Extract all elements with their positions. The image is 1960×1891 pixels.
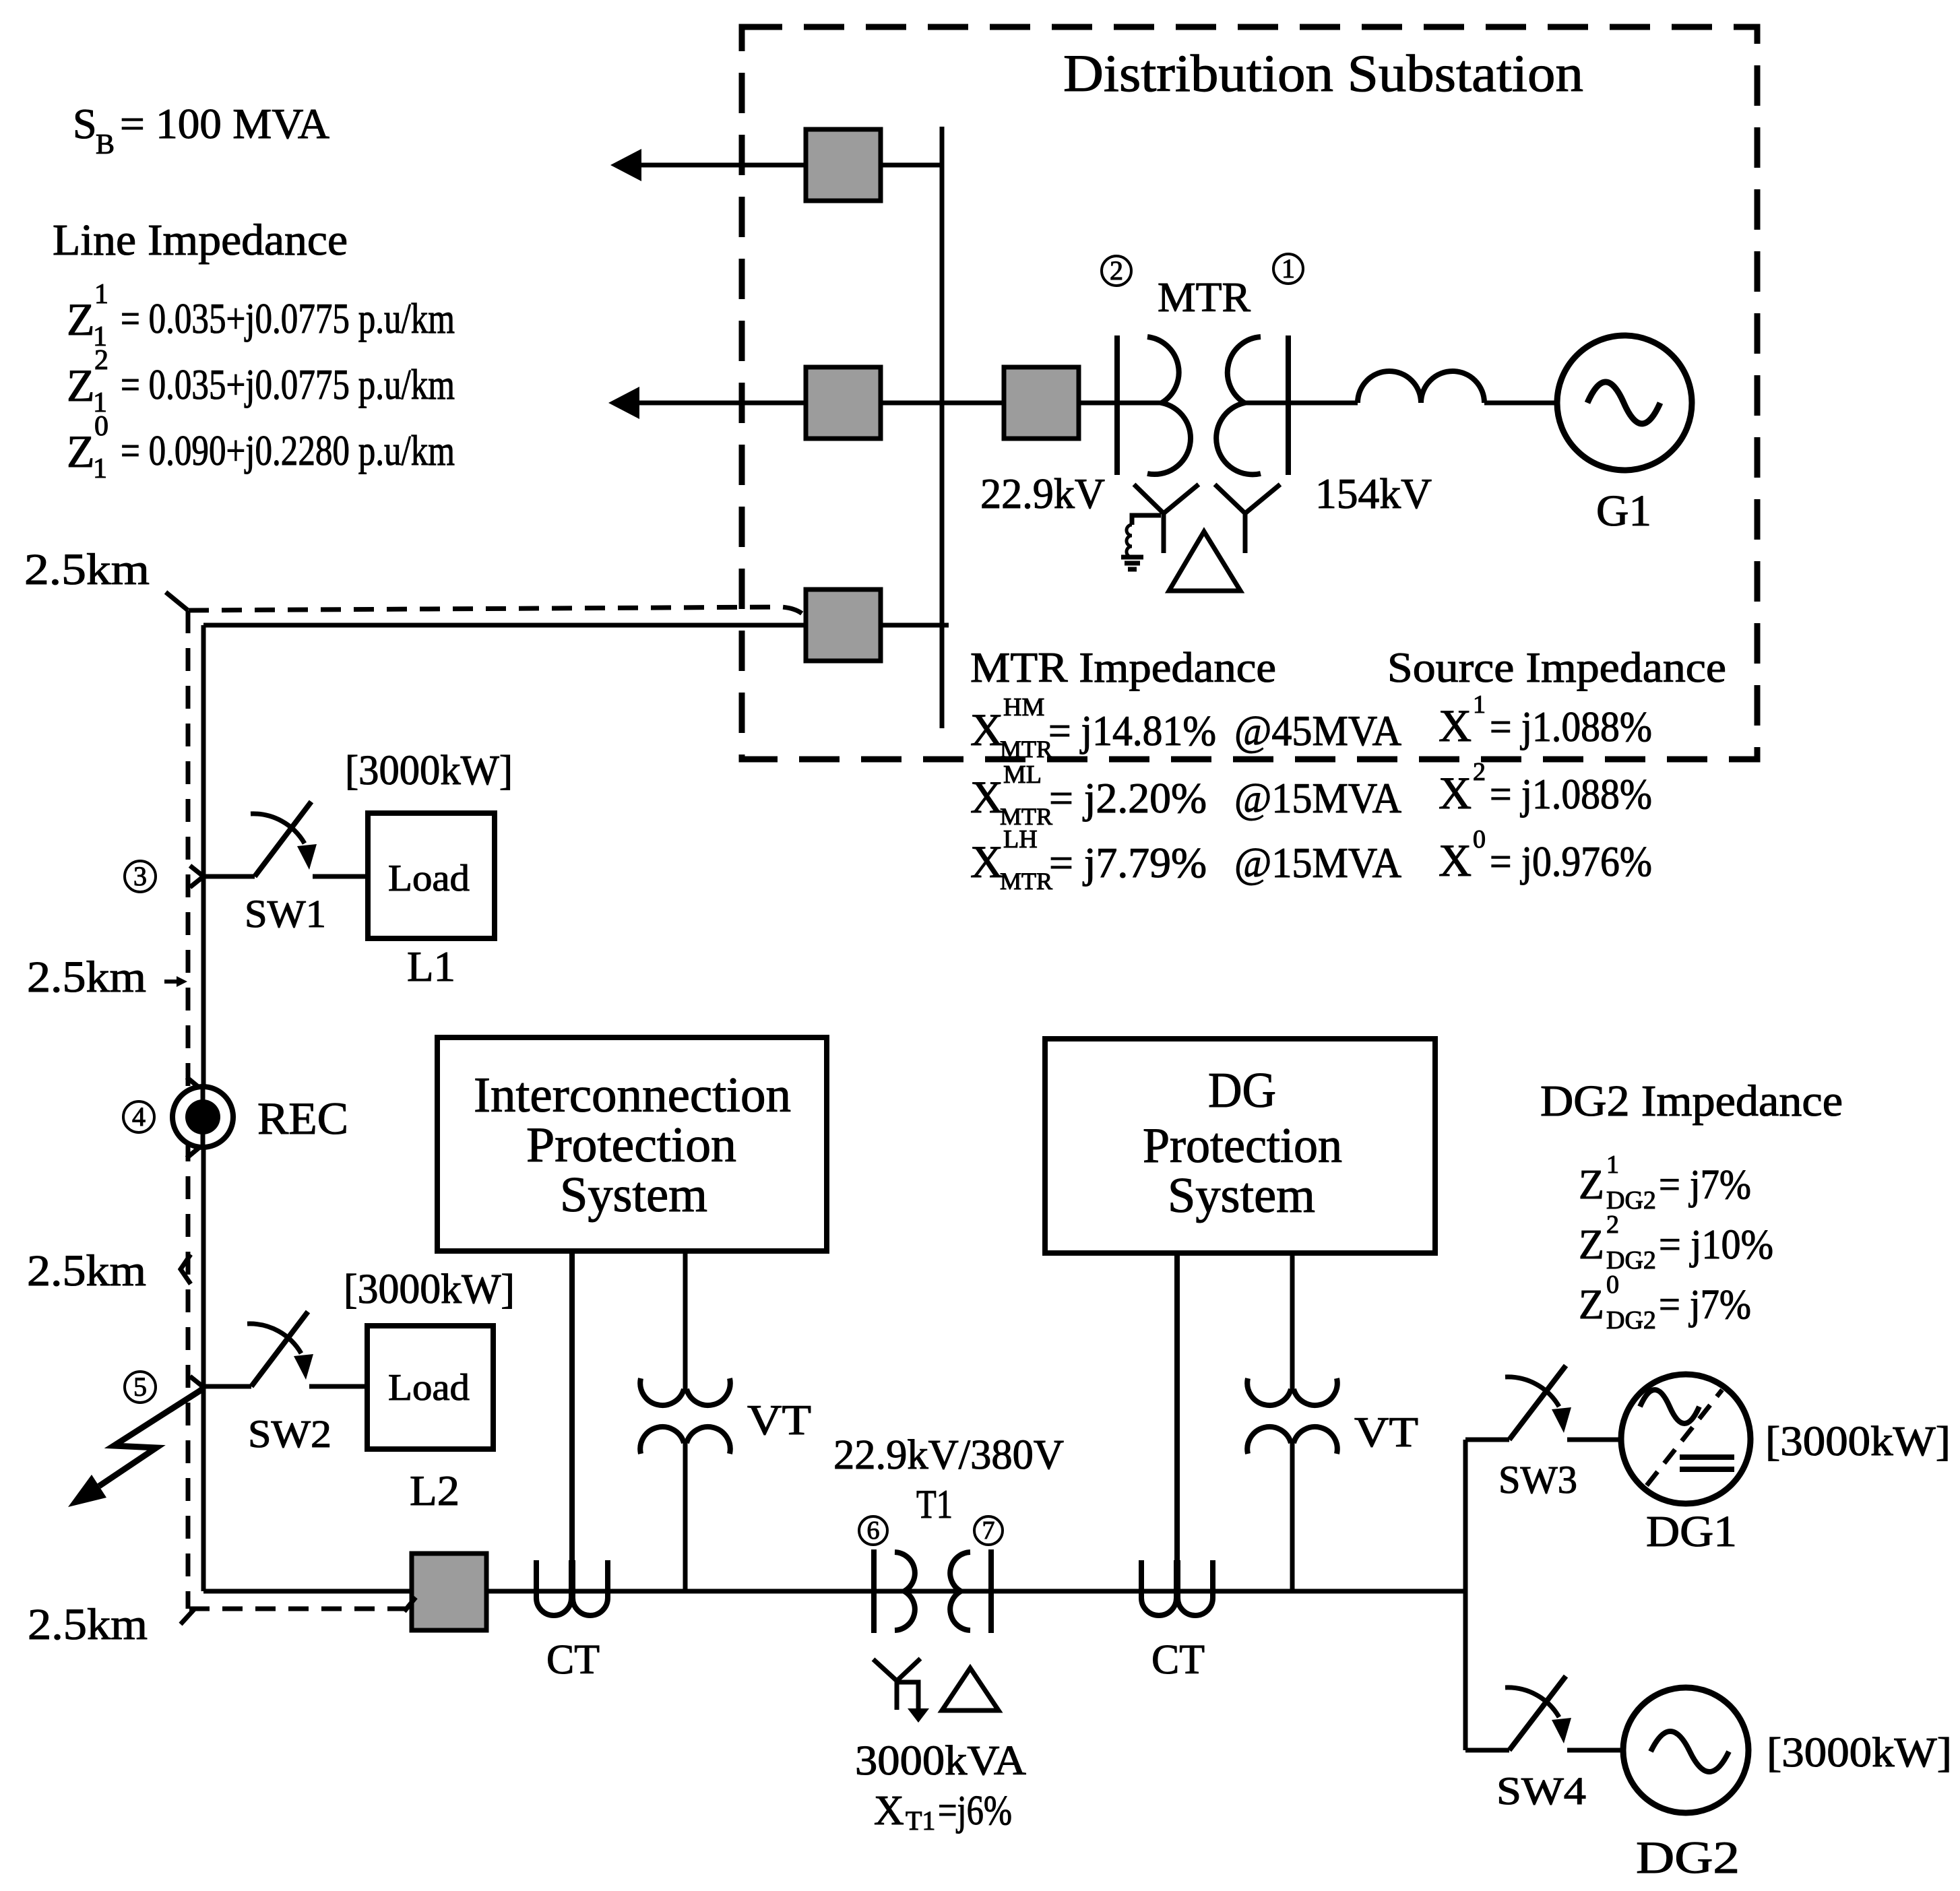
svg-text:S: S xyxy=(73,100,97,148)
svg-text:DG: DG xyxy=(1208,1063,1276,1118)
svg-text:=j6%: =j6% xyxy=(938,1788,1012,1834)
svg-text:1: 1 xyxy=(93,453,107,484)
svg-text:REC: REC xyxy=(257,1093,348,1144)
svg-text:T1: T1 xyxy=(906,1805,935,1836)
svg-text:6: 6 xyxy=(867,1516,880,1545)
svg-text:X: X xyxy=(970,704,1003,755)
svg-text:VT: VT xyxy=(1354,1408,1418,1456)
transformer MTR right winding xyxy=(1216,337,1261,474)
svg-text:X: X xyxy=(1439,767,1472,819)
svg-text:SW4: SW4 xyxy=(1496,1769,1586,1813)
transformer MTR left bar xyxy=(1114,335,1120,475)
svg-text:= j7%: = j7% xyxy=(1659,1282,1751,1328)
MTR wye winding symbol xyxy=(1215,484,1280,553)
breaker CB3 xyxy=(806,589,881,661)
dimension tick top xyxy=(166,592,188,610)
generator G1 xyxy=(1557,335,1692,470)
svg-text:X: X xyxy=(970,836,1003,887)
transformer T1 xyxy=(874,1549,991,1633)
svg-text:= j10%: = j10% xyxy=(1659,1222,1773,1268)
load L1 box xyxy=(368,813,495,938)
feeder F2 wire xyxy=(637,401,942,406)
svg-text:MTR: MTR xyxy=(1000,868,1052,895)
svg-text:LH: LH xyxy=(1003,825,1038,854)
bottom feeder wire left xyxy=(203,1589,412,1594)
inductor source impedance xyxy=(1358,371,1484,403)
svg-text:1: 1 xyxy=(1282,253,1295,284)
feeder F1 arrow xyxy=(610,149,641,181)
wire MTR to inductor xyxy=(1244,401,1358,406)
text X0 source xyxy=(1439,825,1652,886)
CT DG xyxy=(1141,1253,1213,1615)
svg-text:X: X xyxy=(1439,700,1472,751)
svg-text:2: 2 xyxy=(94,345,108,376)
svg-text:= j7%: = j7% xyxy=(1659,1162,1751,1208)
text X_MTR^HM row xyxy=(970,693,1401,763)
svg-text:= j1.088%: = j1.088% xyxy=(1490,703,1652,750)
svg-text:@15MVA: @15MVA xyxy=(1234,774,1401,822)
svg-text:DG1: DG1 xyxy=(1646,1507,1737,1556)
feeder F1 wire xyxy=(639,163,942,168)
dimension dashed horizontal top xyxy=(189,607,806,617)
svg-text:ML: ML xyxy=(1003,761,1042,789)
switch SW1 xyxy=(203,802,368,876)
text Z2 DG2 xyxy=(1579,1211,1773,1275)
svg-text:3000kVA: 3000kVA xyxy=(855,1738,1026,1784)
text X_MTR^LH row xyxy=(970,825,1401,895)
svg-text:2: 2 xyxy=(1606,1211,1619,1239)
svg-text:L2: L2 xyxy=(410,1467,460,1514)
dimension chevron node 4 upper xyxy=(187,1077,202,1090)
text Z1 positive sequence xyxy=(67,279,455,352)
node 1 circled xyxy=(1273,253,1303,284)
MTR delta winding symbol xyxy=(1169,532,1240,591)
svg-text:Protection: Protection xyxy=(526,1118,736,1173)
svg-text:154kV: 154kV xyxy=(1315,470,1432,517)
svg-text:2.5km: 2.5km xyxy=(27,1246,146,1295)
svg-text:Distribution Substation: Distribution Substation xyxy=(1063,44,1583,102)
node 3 circled xyxy=(125,861,156,892)
svg-text:= 100 MVA: = 100 MVA xyxy=(120,100,329,148)
dimension leader tick at 2.5km segment 2 label xyxy=(164,976,187,987)
wire MTR line xyxy=(942,401,1162,406)
main feeder vertical wire xyxy=(201,625,206,1591)
substation dashed boundary xyxy=(742,27,1757,759)
svg-text:1: 1 xyxy=(1606,1151,1619,1179)
svg-text:= j14.81%: = j14.81% xyxy=(1048,707,1216,755)
svg-text:Line Impedance: Line Impedance xyxy=(53,216,348,265)
text X1 source xyxy=(1439,691,1652,751)
feeder F2 arrow xyxy=(608,387,639,419)
svg-text:[3000kW]: [3000kW] xyxy=(1765,1419,1951,1465)
svg-text:System: System xyxy=(560,1167,707,1223)
svg-text:Load: Load xyxy=(388,1367,470,1409)
svg-text:7: 7 xyxy=(982,1516,995,1545)
svg-text:= 0.035+j0.0775 p.u/km: = 0.035+j0.0775 p.u/km xyxy=(121,360,455,408)
svg-text:DG2: DG2 xyxy=(1606,1306,1656,1335)
box Interconnection Protection System xyxy=(437,1037,827,1251)
svg-text:2.5km: 2.5km xyxy=(24,545,150,594)
dimension dashed vertical xyxy=(186,610,191,1609)
svg-text:DG2: DG2 xyxy=(1636,1832,1740,1883)
bottom feeder wire main xyxy=(486,1589,1465,1594)
dimension chevron node 4 lower xyxy=(187,1145,203,1158)
svg-text:Protection: Protection xyxy=(1143,1118,1342,1174)
breaker CB4 (feeder to DG site) xyxy=(412,1553,486,1630)
switch SW4 xyxy=(1465,1676,1624,1750)
svg-text:[3000kW]: [3000kW] xyxy=(1767,1730,1952,1776)
MTR wye-grounded winding symbol xyxy=(1121,484,1199,569)
svg-text:L1: L1 xyxy=(407,942,455,990)
transformer MTR left winding xyxy=(1147,337,1191,474)
dimension chevron node 3 xyxy=(190,866,203,887)
transformer MTR right bar xyxy=(1286,335,1291,475)
svg-text:4: 4 xyxy=(132,1101,146,1132)
svg-text:VT: VT xyxy=(747,1396,811,1444)
svg-text:Z: Z xyxy=(67,426,95,477)
text S_B = 100 MVA xyxy=(73,100,329,160)
svg-text:CT: CT xyxy=(1151,1637,1205,1683)
svg-text:MTR: MTR xyxy=(1158,275,1251,321)
svg-text:= j0.976%: = j0.976% xyxy=(1490,837,1652,885)
svg-text:[3000kW]: [3000kW] xyxy=(344,1267,515,1312)
breaker CB2 xyxy=(806,367,881,439)
recloser REC xyxy=(172,1087,233,1147)
node 6 circled xyxy=(859,1516,887,1545)
svg-text:T1: T1 xyxy=(916,1482,953,1527)
svg-text:Z: Z xyxy=(1579,1222,1604,1268)
VT interconnection xyxy=(640,1251,730,1591)
label XT1=j6% xyxy=(874,1788,1012,1836)
wire inductor to G1 xyxy=(1484,401,1558,406)
svg-text:MTR: MTR xyxy=(1000,736,1052,763)
text X_MTR^ML row xyxy=(970,761,1401,830)
svg-text:= j7.79%: = j7.79% xyxy=(1049,839,1207,887)
generator DG1 inverter xyxy=(1621,1374,1750,1504)
svg-text:Z: Z xyxy=(1579,1282,1604,1328)
svg-text:0: 0 xyxy=(94,411,108,442)
text Z0 DG2 xyxy=(1579,1271,1751,1335)
svg-text:= j2.20%: = j2.20% xyxy=(1049,774,1207,822)
svg-text:MTR Impedance: MTR Impedance xyxy=(970,643,1276,691)
CT interconnection xyxy=(536,1251,608,1615)
node 2 circled xyxy=(1102,255,1131,286)
riser wire to DGs xyxy=(1463,1440,1468,1750)
svg-text:Interconnection: Interconnection xyxy=(474,1068,791,1123)
feeder F3 wire xyxy=(203,623,949,628)
svg-text:0: 0 xyxy=(1473,825,1486,854)
svg-text:1: 1 xyxy=(1473,691,1486,719)
dimension pinch mark at 2.5km segment 3 label xyxy=(181,1254,191,1284)
T1 wye-grounded symbol xyxy=(873,1659,929,1723)
svg-text:Load: Load xyxy=(388,858,470,899)
svg-text:X: X xyxy=(874,1788,904,1834)
bus 22.9kV vertical xyxy=(940,127,945,728)
svg-text:B: B xyxy=(96,129,115,160)
text X2 source xyxy=(1439,758,1652,819)
svg-text:5: 5 xyxy=(133,1372,147,1402)
svg-text:Z: Z xyxy=(67,294,95,345)
dimension tick bottom right xyxy=(404,1597,416,1611)
svg-text:X: X xyxy=(970,771,1003,823)
dimension tick bottom corner xyxy=(181,1609,195,1624)
box DG Protection System xyxy=(1045,1039,1435,1253)
svg-text:HM: HM xyxy=(1003,693,1044,722)
svg-text:Source Impedance: Source Impedance xyxy=(1387,643,1726,691)
dimension dashed horizontal bottom xyxy=(189,1607,409,1611)
svg-text:2: 2 xyxy=(1110,255,1123,286)
svg-text:= 0.090+j0.2280 p.u/km: = 0.090+j0.2280 p.u/km xyxy=(121,426,455,474)
text Z1 zero sequence xyxy=(67,411,455,484)
switch SW3 xyxy=(1465,1366,1621,1440)
svg-text:CT: CT xyxy=(546,1637,600,1683)
VT DG xyxy=(1247,1253,1337,1591)
svg-text:Z: Z xyxy=(1579,1162,1604,1208)
svg-text:1: 1 xyxy=(94,279,108,310)
fault lightning arrow xyxy=(68,1390,201,1507)
svg-text:SW2: SW2 xyxy=(248,1412,331,1456)
node 4 circled xyxy=(123,1101,154,1132)
switch SW2 xyxy=(203,1312,367,1386)
svg-text:= j1.088%: = j1.088% xyxy=(1490,770,1652,818)
svg-text:= 0.035+j0.0775 p.u/km: = 0.035+j0.0775 p.u/km xyxy=(121,294,455,342)
svg-text:SW3: SW3 xyxy=(1498,1458,1577,1502)
svg-text:2.5km: 2.5km xyxy=(28,1600,148,1649)
svg-text:Z: Z xyxy=(67,360,95,411)
T1 delta symbol xyxy=(942,1668,999,1710)
svg-text:@15MVA: @15MVA xyxy=(1234,839,1401,887)
dimension chevron node 5 xyxy=(190,1376,203,1398)
text Z1 DG2 xyxy=(1579,1151,1751,1215)
svg-text:22.9kV: 22.9kV xyxy=(980,470,1105,517)
svg-text:X: X xyxy=(1439,835,1472,886)
svg-text:0: 0 xyxy=(1606,1271,1619,1299)
svg-text:SW1: SW1 xyxy=(245,892,326,936)
text Z1 negative sequence xyxy=(67,345,455,418)
svg-text:@45MVA: @45MVA xyxy=(1234,707,1401,755)
svg-text:G1: G1 xyxy=(1596,486,1651,536)
svg-text:2: 2 xyxy=(1473,758,1486,786)
breaker CB-MTR xyxy=(1004,367,1079,439)
svg-text:System: System xyxy=(1168,1168,1315,1223)
svg-text:22.9kV/380V: 22.9kV/380V xyxy=(833,1432,1064,1478)
load L2 box xyxy=(367,1326,493,1449)
breaker CB1 xyxy=(806,129,881,201)
svg-text:2.5km: 2.5km xyxy=(27,953,146,1002)
generator DG2 xyxy=(1623,1688,1748,1813)
svg-text:[3000kW]: [3000kW] xyxy=(345,748,513,794)
svg-text:DG2 Impedance: DG2 Impedance xyxy=(1540,1077,1843,1126)
node 5 circled xyxy=(125,1372,156,1403)
svg-text:3: 3 xyxy=(133,861,147,891)
node 7 circled xyxy=(974,1516,1003,1545)
